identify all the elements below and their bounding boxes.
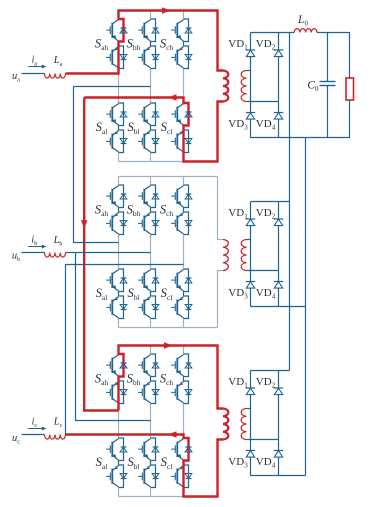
- arrow: current direction into block1 S_cl (pointing left): [168, 94, 177, 100]
- diode overlay block1 S_ah upper cell: [121, 27, 127, 29]
- wire: red path from TR3 primary to block3 bottom rail and S_cl to u_c: [66, 435, 224, 497]
- switch S_bh (block 1): [151, 19, 156, 42]
- resistor load R (red rectangle): [346, 78, 354, 100]
- diode VD3 (bridge 1): [246, 112, 255, 114]
- wire: red path up through block3 S_ah to top rail: [119, 346, 224, 411]
- block 1 column c stubs: [183, 11, 185, 20]
- arrow: current direction on block3 top rail: [164, 342, 173, 348]
- transformer TR2 primary winding: [223, 240, 228, 271]
- diode overlay block3 S_ah upper cell: [121, 362, 127, 364]
- rectifier bridge 3 legs: [250, 371, 252, 476]
- wire: u_c lead: [22, 434, 45, 436]
- inductor L_c: [45, 435, 66, 440]
- transformer TR1 secondary winding: [241, 71, 246, 102]
- switch S_ch (block 1): [184, 19, 189, 42]
- capacitor C0: [327, 33, 329, 82]
- wire: u_b line to block2 column b: [66, 252, 151, 254]
- switch S_ah (block 1): [119, 19, 124, 42]
- wire: u_a lead: [22, 73, 45, 75]
- wire: DC- bus vertical: [305, 138, 307, 476]
- arrow i_b current label: [28, 246, 43, 248]
- block 1 column b stubs: [150, 11, 152, 20]
- rectifier bridge 1 legs: [250, 33, 252, 138]
- diode overlay block1 S_cl upper cell: [186, 111, 192, 113]
- wire: DC+ bus vertical: [289, 33, 291, 371]
- diode VD2 (bridge 2): [274, 218, 283, 220]
- block 1 bottom rail: [119, 161, 184, 163]
- rectifier bridge 2 legs: [250, 202, 252, 307]
- diode VD4 (bridge 2): [274, 281, 283, 283]
- switch S_ah (block 2): [119, 185, 124, 208]
- wire: TR1 secondary to bridge legs: [247, 70, 251, 72]
- wire: TR3 secondary to bridge legs: [247, 408, 251, 410]
- block 2 bottom rail: [119, 327, 218, 329]
- switch S_bl (block 2): [151, 269, 156, 292]
- wire: red vertical bus on left (block1 S_cl to block3 S_ah): [84, 98, 118, 411]
- block 3 column b stubs: [150, 346, 152, 355]
- block 3 column a stubs: [118, 346, 120, 355]
- wire: u_b lead: [22, 252, 45, 254]
- wire: highlighted current path (red), phase a through block 1: [66, 11, 224, 74]
- transformer TR3 secondary winding: [241, 409, 246, 440]
- switch S_bl (block 1): [151, 103, 156, 126]
- wire: bridge2 bottom rail: [251, 306, 306, 308]
- arrow: current direction down left red bus: [81, 220, 87, 229]
- wire: u_c rise to block2 column c: [66, 265, 184, 435]
- arrow i_a current label: [28, 66, 43, 68]
- transformer TR3 primary winding (red): [223, 409, 228, 440]
- wire: output top rail after L0: [317, 33, 350, 79]
- transformer TR2 secondary winding: [241, 240, 246, 271]
- switch S_al (block 2): [119, 269, 124, 292]
- block 2 top rail: [119, 176, 218, 178]
- diode VD2 (bridge 1): [274, 49, 283, 51]
- diode VD1 (bridge 2): [246, 218, 255, 220]
- arrow: current direction on block1 top rail: [162, 7, 171, 13]
- diode VD1 (bridge 3): [246, 387, 255, 389]
- diode VD3 (bridge 3): [246, 450, 255, 452]
- block 3 bottom rail: [119, 496, 184, 498]
- wire: u_b drop to block3 column b: [76, 253, 151, 421]
- switch S_bh (block 3): [151, 354, 156, 377]
- node: phase b feed to block1 column b: [74, 86, 151, 88]
- diode VD1 (bridge 1): [246, 49, 255, 51]
- switch S_ch (block 3): [184, 354, 189, 377]
- switch S_bl (block 3): [151, 438, 156, 461]
- block 1 column a stubs: [118, 11, 120, 20]
- block 2 column a stubs: [118, 177, 120, 186]
- wire: bridge1 top rail / DC+ rail to L0: [251, 32, 295, 34]
- diode VD3 (bridge 2): [246, 281, 255, 283]
- inductor L_a: [45, 74, 66, 79]
- block 2 column c stubs: [183, 177, 185, 186]
- block 3 column c stubs: [183, 346, 185, 355]
- switch S_ch (block 2): [184, 185, 189, 208]
- block 2 right connector to transformer: [218, 177, 224, 240]
- wire: load to bottom rail: [349, 100, 351, 138]
- wire: red path from TR1 primary to block1 bottom rail and S_cl: [84, 98, 223, 162]
- switch S_al (block 1): [119, 103, 124, 126]
- switch S_al (block 3): [119, 438, 124, 461]
- diode VD4 (bridge 3): [274, 450, 283, 452]
- arrow i_c current label: [28, 428, 43, 430]
- switch S_cl (block 2): [184, 269, 189, 292]
- switch S_bh (block 2): [151, 185, 156, 208]
- switch S_cl (block 1): [184, 103, 189, 126]
- block 2 column b stubs: [150, 177, 152, 186]
- wire: bridge1 bottom rail / DC- rail: [251, 137, 351, 139]
- inductor L_b: [45, 253, 66, 258]
- wire: bridge3 bottom rail: [251, 475, 306, 477]
- switch S_cl (block 3): [184, 438, 189, 461]
- wire: bridge3 top rail: [251, 370, 290, 372]
- switch S_ah (block 3): [119, 354, 124, 377]
- wire: bridge2 top rail: [251, 201, 290, 203]
- wire: left vertical from block1 col b down to block2 col a: [74, 87, 119, 243]
- arrow: current direction on u_c line (pointing left): [168, 431, 177, 437]
- inductor L0 (output filter): [294, 29, 317, 33]
- diode VD4 (bridge 1): [274, 112, 283, 114]
- transformer TR1 primary winding (red): [223, 71, 228, 102]
- diode VD2 (bridge 3): [274, 387, 283, 389]
- wire: TR2 secondary to bridge legs: [247, 239, 251, 241]
- diode overlay block3 S_cl upper cell: [186, 446, 192, 448]
